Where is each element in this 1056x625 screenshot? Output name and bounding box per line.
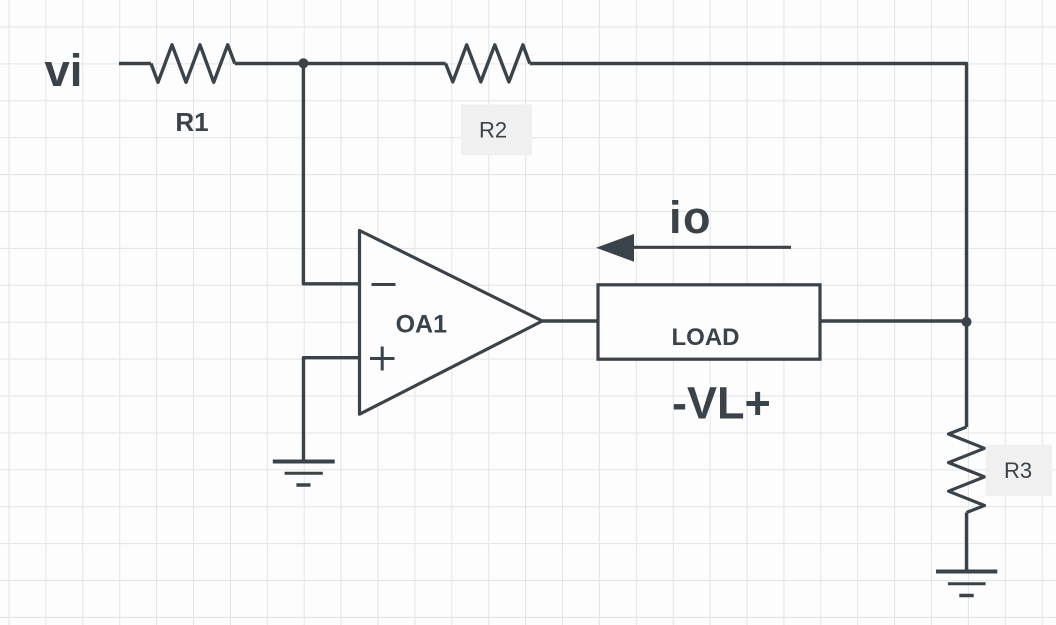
wire R2 to right corner and down to node B: [530, 64, 967, 322]
ground GND1 under op-amp: [273, 462, 335, 486]
LOAD box: [598, 285, 820, 359]
svg-text:R2: R2: [479, 118, 507, 143]
op-amp plus symbol: [370, 347, 395, 371]
wire non-inverting input to ground stub: [304, 358, 360, 460]
label box R2: [461, 105, 532, 156]
wire R3 to ground: [965, 513, 968, 570]
svg-text:-VL+: -VL+: [672, 378, 771, 429]
node A junction dot: [298, 58, 308, 68]
svg-text:vi: vi: [45, 45, 83, 96]
label box R3: [986, 445, 1053, 496]
svg-text:R3: R3: [1004, 458, 1032, 483]
op-amp minus symbol: [372, 283, 396, 286]
wire R1 to R2 through node A: [235, 62, 446, 65]
current arrow io: [596, 234, 791, 262]
resistor R1: [151, 45, 235, 83]
svg-text:LOAD: LOAD: [672, 324, 740, 351]
resistor R2: [446, 45, 530, 82]
wire node B down to R3: [965, 322, 968, 427]
svg-text:R1: R1: [175, 107, 208, 137]
wire node A down to inverting input: [303, 64, 359, 284]
node B junction dot: [962, 317, 972, 327]
op-amp OA1 body: [360, 231, 543, 415]
ground GND2 bottom right: [936, 572, 997, 596]
resistor R3: [949, 427, 985, 513]
wire op-amp output to LOAD: [542, 319, 598, 322]
svg-text:OA1: OA1: [396, 311, 448, 339]
wire LOAD to node B: [820, 319, 967, 322]
wire vi lead into R1: [119, 62, 151, 65]
svg-text:io: io: [669, 192, 712, 243]
